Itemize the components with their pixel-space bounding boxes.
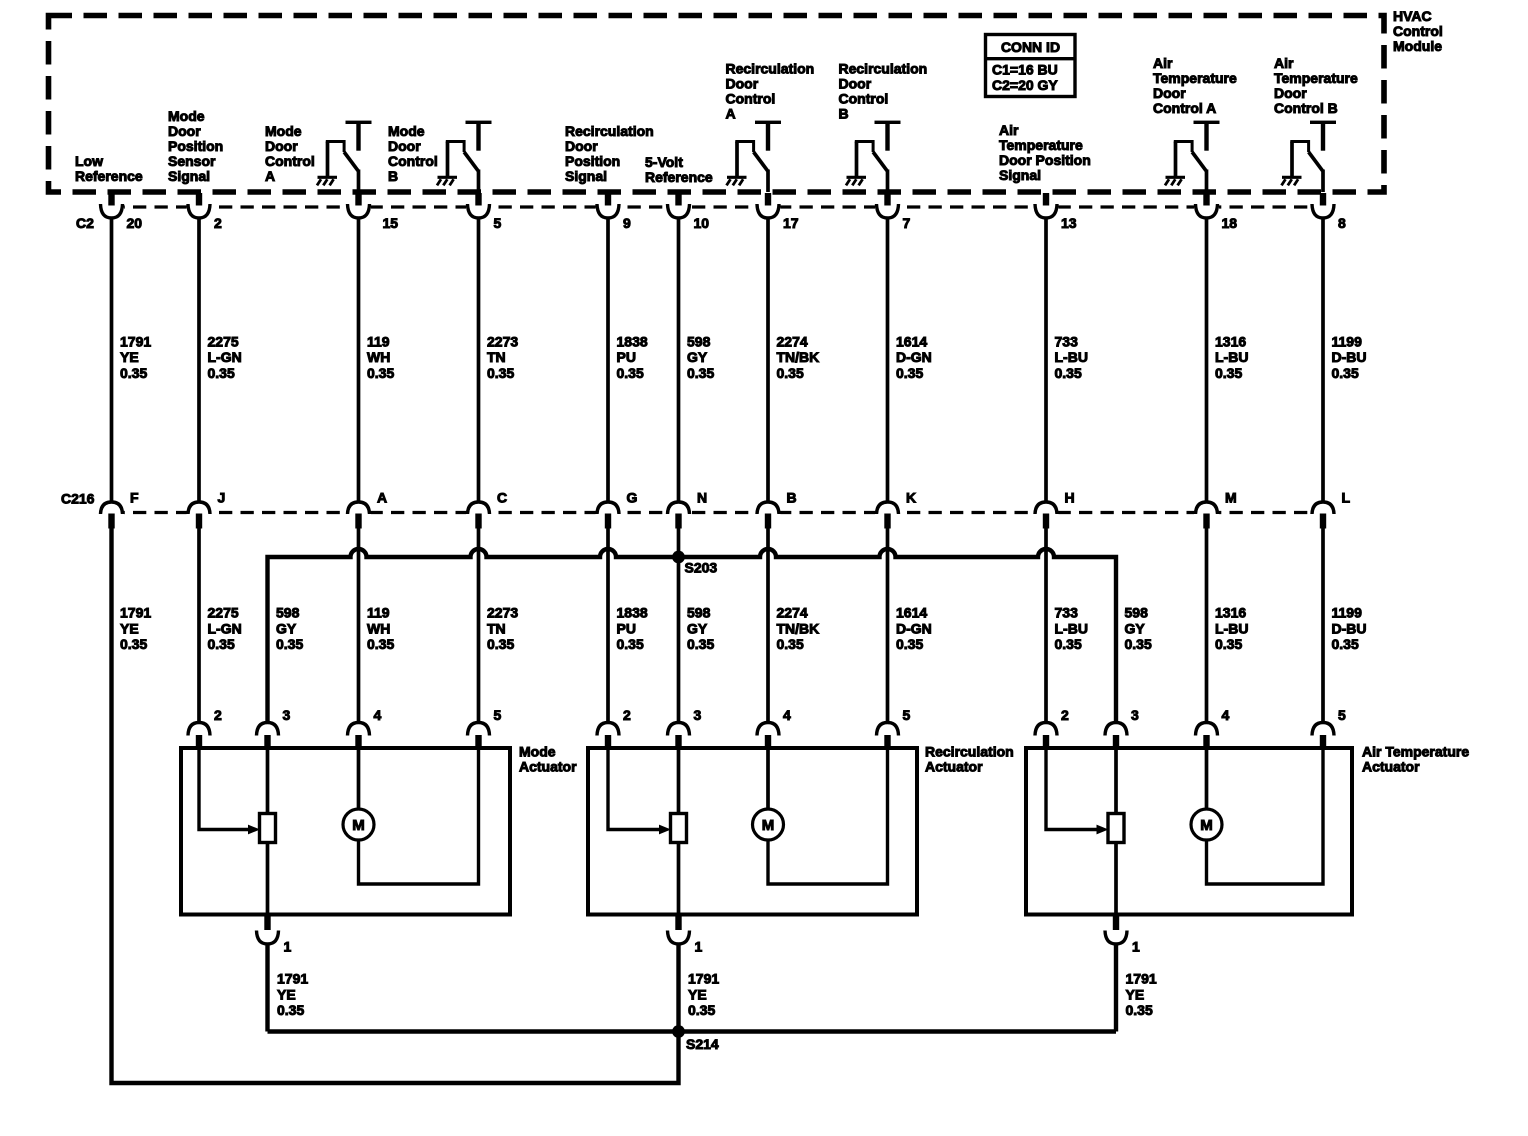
Air Temperature Actuator motor return wire (pin 5) xyxy=(1207,748,1324,884)
svg-text:0.35: 0.35 xyxy=(1215,636,1242,652)
svg-text:Actuator: Actuator xyxy=(925,759,983,775)
svg-text:1791: 1791 xyxy=(688,971,719,987)
Air Temperature Actuator pin 5 terminal xyxy=(1312,723,1334,749)
supply rail T-bar xyxy=(466,121,492,151)
svg-text:0.35: 0.35 xyxy=(367,636,394,652)
svg-text:0.35: 0.35 xyxy=(1126,1002,1153,1018)
svg-text:Temperature: Temperature xyxy=(1274,70,1358,86)
svg-text:GY: GY xyxy=(1125,620,1146,636)
svg-text:M: M xyxy=(1200,817,1213,834)
switch element xyxy=(1174,140,1207,192)
HVAC Control Module name label xyxy=(1393,8,1443,54)
svg-text:Control: Control xyxy=(265,153,315,169)
wire label 1316 L-BU 0.35 (lower) xyxy=(1215,605,1248,652)
svg-text:0.35: 0.35 xyxy=(1332,365,1359,381)
svg-text:2275: 2275 xyxy=(208,333,239,349)
Air Temperature Actuator pin 4 number xyxy=(1222,707,1230,723)
svg-text:Door: Door xyxy=(1274,85,1307,101)
svg-text:PU: PU xyxy=(617,349,636,365)
svg-text:2274: 2274 xyxy=(777,333,808,349)
svg-text:3: 3 xyxy=(1131,707,1139,723)
svg-text:1: 1 xyxy=(695,939,703,955)
Air Temperature Actuator wiper feed (pin 2) xyxy=(1046,748,1109,834)
svg-text:733: 733 xyxy=(1055,605,1079,621)
wire 1791 YE return run S214 to C216 pin F xyxy=(112,528,679,1083)
svg-text:C: C xyxy=(497,490,507,506)
svg-text:10: 10 xyxy=(694,215,710,231)
svg-text:0.35: 0.35 xyxy=(617,365,644,381)
C216 pin N terminal xyxy=(666,502,691,529)
svg-text:Door: Door xyxy=(265,138,298,154)
C2 pin 8 number xyxy=(1338,215,1346,231)
svg-text:S214: S214 xyxy=(686,1036,719,1052)
svg-text:733: 733 xyxy=(1055,333,1079,349)
svg-text:4: 4 xyxy=(783,707,791,723)
Air Temperature Actuator position sensor potentiometer xyxy=(1108,814,1124,843)
wire label 598 GY 0.35 (upper) xyxy=(687,333,714,380)
svg-text:L-BU: L-BU xyxy=(1055,620,1088,636)
C2 pin 20 number xyxy=(127,215,143,231)
svg-text:1316: 1316 xyxy=(1215,605,1246,621)
switch element xyxy=(1290,140,1323,192)
Recirculation Actuator box xyxy=(588,748,917,915)
C2 pin 18 number xyxy=(1222,215,1238,231)
Recirculation Actuator label xyxy=(925,744,1014,775)
supply rail T-bar xyxy=(1194,121,1220,151)
wire 598 GY from C216 pin N to actuator xyxy=(677,528,681,724)
svg-text:Door: Door xyxy=(726,76,759,92)
Mode Actuator pin 5 terminal xyxy=(468,723,490,749)
C2 pin 7 terminal xyxy=(875,193,900,219)
svg-text:Door Position: Door Position xyxy=(999,152,1091,168)
svg-text:3: 3 xyxy=(694,707,702,723)
svg-text:YE: YE xyxy=(120,620,139,636)
svg-text:Mode: Mode xyxy=(168,108,205,124)
Recirculation Actuator pin 5 number xyxy=(903,707,911,723)
svg-text:Recirculation: Recirculation xyxy=(839,61,928,77)
svg-text:1316: 1316 xyxy=(1215,333,1246,349)
svg-text:Air: Air xyxy=(1153,55,1173,71)
svg-text:Reference: Reference xyxy=(645,169,713,185)
wire 1614 D-GN from C216 pin K to actuator xyxy=(886,528,890,724)
C2 pin 9 terminal xyxy=(596,193,621,219)
wire label 2274 TN/BK 0.35 (lower) xyxy=(777,605,820,652)
Air Temperature Door Position Signal label xyxy=(999,122,1091,183)
C2 pin 7 number xyxy=(903,215,911,231)
svg-text:TN/BK: TN/BK xyxy=(777,620,820,636)
Mode Actuator pin 4 number xyxy=(374,707,382,723)
svg-text:5: 5 xyxy=(494,215,502,231)
Mode Actuator box xyxy=(181,748,510,915)
svg-text:0.35: 0.35 xyxy=(487,636,514,652)
svg-text:TN: TN xyxy=(487,349,506,365)
svg-text:M: M xyxy=(762,817,775,834)
svg-text:Mode: Mode xyxy=(265,123,302,139)
C216 pin C terminal xyxy=(466,502,491,529)
svg-text:Door: Door xyxy=(1153,85,1186,101)
svg-text:Air: Air xyxy=(1274,55,1294,71)
wire 2274 TN/BK from C216 pin B to actuator xyxy=(766,528,770,724)
wire label 1791 YE 0.35 (Air Temperature Actuator return) xyxy=(1126,971,1157,1018)
wire label 119 WH 0.35 (lower) xyxy=(367,605,394,652)
wire label 1614 D-GN 0.35 (upper) xyxy=(896,333,932,380)
Air Temperature Actuator pin 5 number xyxy=(1338,707,1346,723)
svg-text:Signal: Signal xyxy=(999,167,1041,183)
svg-text:15: 15 xyxy=(383,215,399,231)
svg-text:0.35: 0.35 xyxy=(777,365,804,381)
svg-text:A: A xyxy=(377,490,387,506)
svg-text:1: 1 xyxy=(284,939,292,955)
ground xyxy=(1165,177,1185,185)
Air Temperature Actuator pin 1 number xyxy=(1132,939,1140,955)
svg-text:0.35: 0.35 xyxy=(276,636,303,652)
wire 2274 TN/BK from C2 pin 17 to C216 pin B xyxy=(766,217,770,504)
svg-text:L-GN: L-GN xyxy=(208,620,242,636)
svg-text:GY: GY xyxy=(687,349,708,365)
svg-text:L: L xyxy=(1342,490,1351,506)
connector C2 dotted line xyxy=(112,205,1324,208)
svg-text:0.35: 0.35 xyxy=(1332,636,1359,652)
svg-text:TN/BK: TN/BK xyxy=(777,349,820,365)
wire label 1316 L-BU 0.35 (upper) xyxy=(1215,333,1248,380)
Mode Actuator pin 1 number xyxy=(284,939,292,955)
svg-text:Recirculation: Recirculation xyxy=(565,123,654,139)
Air Temperature Door Control B label xyxy=(1274,55,1358,116)
Recirculation Actuator pin 3 terminal xyxy=(668,723,690,749)
svg-text:1614: 1614 xyxy=(896,605,927,621)
svg-text:B: B xyxy=(839,106,849,122)
wire label 598 GY 0.35 (lower) xyxy=(1125,605,1152,652)
wire 1614 D-GN from C2 pin 7 to C216 pin K xyxy=(886,217,890,504)
svg-text:TN: TN xyxy=(487,620,506,636)
Air Temperature Actuator pin 4 terminal xyxy=(1196,723,1218,749)
svg-text:119: 119 xyxy=(367,333,390,349)
svg-text:WH: WH xyxy=(367,349,390,365)
svg-text:Door: Door xyxy=(565,138,598,154)
Mode Actuator pin 4 terminal xyxy=(348,723,370,749)
wire label 2273 TN 0.35 (upper) xyxy=(487,333,518,380)
Mode Actuator pin 3 number xyxy=(283,707,291,723)
svg-text:Signal: Signal xyxy=(565,168,607,184)
ground xyxy=(846,177,866,185)
C216 pin J terminal xyxy=(187,502,212,529)
C216 pin H terminal xyxy=(1034,502,1059,529)
Air Temperature Door Control A output driver xyxy=(1165,121,1220,192)
C216 pin C letter xyxy=(497,490,507,506)
Air Temperature Actuator pin 1 terminal xyxy=(1105,915,1127,945)
Air Temperature Actuator pin 3 number xyxy=(1131,707,1139,723)
wire 1316 L-BU from C216 pin M to actuator xyxy=(1205,528,1209,724)
wire label 598 GY 0.35 (lower) xyxy=(276,605,303,652)
svg-text:0.35: 0.35 xyxy=(1215,365,1242,381)
C216 pin J letter xyxy=(218,490,226,506)
svg-text:GY: GY xyxy=(276,620,297,636)
wire 2275 L-GN from C2 pin 2 to C216 pin J xyxy=(197,217,201,504)
svg-text:YE: YE xyxy=(1126,986,1145,1002)
svg-text:B: B xyxy=(388,168,398,184)
wire 1791 YE from Air Temperature Actuator pin 1 to S214 xyxy=(1114,943,1118,1032)
wire 1791 YE low reference tie bus xyxy=(268,1029,1117,1033)
Mode Actuator motor M xyxy=(343,748,374,840)
svg-text:C2: C2 xyxy=(76,215,94,231)
wire label 2275 L-GN 0.35 (lower) xyxy=(208,605,242,652)
C216 pin M terminal xyxy=(1194,502,1219,529)
Recirculation Actuator wiper feed (pin 2) xyxy=(608,748,671,834)
svg-text:D-GN: D-GN xyxy=(896,349,932,365)
C216 connector label xyxy=(61,491,95,507)
CONN ID values C1=16 BU / C2=20 GY xyxy=(992,61,1058,93)
svg-text:M: M xyxy=(1225,490,1237,506)
svg-text:2275: 2275 xyxy=(208,605,239,621)
wire 119 WH from C216 pin A to actuator xyxy=(357,528,361,724)
C2 pin 17 terminal xyxy=(756,193,781,219)
svg-text:0.35: 0.35 xyxy=(367,365,394,381)
svg-text:L-GN: L-GN xyxy=(208,349,242,365)
svg-text:Control B: Control B xyxy=(1274,100,1338,116)
svg-text:Signal: Signal xyxy=(168,168,210,184)
svg-text:0.35: 0.35 xyxy=(120,636,147,652)
svg-text:598: 598 xyxy=(276,605,300,621)
svg-text:1791: 1791 xyxy=(277,971,308,987)
svg-text:0.35: 0.35 xyxy=(208,636,235,652)
svg-text:M: M xyxy=(352,817,365,834)
C216 pin H letter xyxy=(1065,490,1075,506)
svg-text:Air: Air xyxy=(999,122,1019,138)
svg-text:HVAC: HVAC xyxy=(1393,8,1432,24)
wire label 1838 PU 0.35 (upper) xyxy=(617,333,648,380)
Air Temperature Actuator box xyxy=(1026,748,1352,915)
Recirculation Door Control B label xyxy=(839,61,928,122)
Recirculation Actuator pin 2 number xyxy=(623,707,631,723)
supply rail T-bar xyxy=(1310,121,1336,151)
Recirculation Actuator pin 3 number xyxy=(694,707,702,723)
Mode Actuator pin 5 number xyxy=(494,707,502,723)
Air Temperature Door Control B output driver xyxy=(1282,121,1337,192)
wire 2275 L-GN from C216 pin J to actuator xyxy=(197,528,201,724)
wire label 1791 YE 0.35 (upper) xyxy=(120,333,151,380)
svg-text:13: 13 xyxy=(1061,215,1077,231)
svg-text:4: 4 xyxy=(374,707,382,723)
svg-text:2: 2 xyxy=(214,707,222,723)
ground xyxy=(317,177,337,185)
svg-text:0.35: 0.35 xyxy=(277,1002,304,1018)
Recirculation Actuator position sensor potentiometer xyxy=(671,814,687,843)
Recirculation Actuator pin 4 number xyxy=(783,707,791,723)
svg-text:5: 5 xyxy=(903,707,911,723)
svg-text:Control A: Control A xyxy=(1153,100,1216,116)
svg-text:2274: 2274 xyxy=(777,605,808,621)
wire label 1838 PU 0.35 (lower) xyxy=(617,605,648,652)
wire label 1199 D-BU 0.35 (upper) xyxy=(1332,333,1367,380)
C216 pin K terminal xyxy=(875,502,900,529)
svg-text:WH: WH xyxy=(367,620,390,636)
svg-text:C2=20 GY: C2=20 GY xyxy=(992,77,1058,93)
Mode Actuator position sensor potentiometer xyxy=(260,814,276,843)
wire 1838 PU from C2 pin 9 to C216 pin G xyxy=(606,217,610,504)
svg-text:0.35: 0.35 xyxy=(896,636,923,652)
C216 pin G terminal xyxy=(596,502,621,529)
Mode Actuator position sensor wire (pin 3) xyxy=(266,748,270,915)
svg-text:Control: Control xyxy=(388,153,438,169)
C2 pin 15 terminal xyxy=(346,193,371,219)
wire 1838 PU from C216 pin G to actuator xyxy=(606,528,610,724)
Recirculation Actuator position sensor wire (pin 3) xyxy=(677,748,681,915)
CONN ID table xyxy=(986,35,1076,97)
svg-text:C1=16 BU: C1=16 BU xyxy=(992,61,1058,77)
wire 598 GY 5-volt reference distribution bus xyxy=(268,549,1117,724)
svg-text:1791: 1791 xyxy=(120,605,151,621)
svg-text:1199: 1199 xyxy=(1332,605,1363,621)
wire label 2274 TN/BK 0.35 (upper) xyxy=(777,333,820,380)
C216 pin F terminal xyxy=(99,502,124,529)
wire 1199 D-BU from C216 pin L to actuator xyxy=(1321,528,1325,724)
svg-text:598: 598 xyxy=(687,605,711,621)
C216 pin G letter xyxy=(627,490,638,506)
connector C216 dashed line xyxy=(112,511,1324,514)
svg-text:0.35: 0.35 xyxy=(208,365,235,381)
svg-text:F: F xyxy=(130,490,139,506)
C2 pin 2 number xyxy=(214,215,222,231)
wire label 1614 D-GN 0.35 (lower) xyxy=(896,605,932,652)
svg-text:J: J xyxy=(218,490,226,506)
wire label 1791 YE 0.35 (Recirculation Actuator return) xyxy=(688,971,719,1018)
svg-text:Control: Control xyxy=(839,91,889,107)
Mode Door Position Sensor Signal label xyxy=(168,108,223,184)
svg-text:4: 4 xyxy=(1222,707,1230,723)
C216 pin K letter xyxy=(906,490,916,506)
svg-text:L-BU: L-BU xyxy=(1215,349,1248,365)
Recirculation Actuator motor return wire (pin 5) xyxy=(768,748,888,884)
svg-text:2: 2 xyxy=(1061,707,1069,723)
svg-text:1199: 1199 xyxy=(1332,333,1363,349)
svg-text:5: 5 xyxy=(494,707,502,723)
Mode Actuator pin 2 terminal xyxy=(188,723,210,749)
Recirculation Actuator pin 4 terminal xyxy=(757,723,779,749)
splice S203 xyxy=(672,551,685,564)
svg-text:L-BU: L-BU xyxy=(1215,620,1248,636)
supply rail T-bar xyxy=(346,121,372,151)
wire 733 L-BU from C2 pin 13 to C216 pin H xyxy=(1044,217,1048,504)
wire label 733 L-BU 0.35 (lower) xyxy=(1055,605,1088,652)
supply rail T-bar xyxy=(755,121,781,151)
svg-text:Position: Position xyxy=(168,138,223,154)
C216 pin A letter xyxy=(377,490,387,506)
svg-text:Control: Control xyxy=(726,91,776,107)
Air Temperature Actuator position sensor wire (pin 3) xyxy=(1114,748,1118,915)
C2 pin 20 terminal xyxy=(99,193,124,219)
C216 pin A terminal xyxy=(346,502,371,529)
Mode Door Control B output driver xyxy=(437,121,492,192)
svg-text:G: G xyxy=(627,490,638,506)
C216 pin B letter xyxy=(787,490,797,506)
wire 2273 TN from C216 pin C to actuator xyxy=(477,528,481,724)
Low Reference label xyxy=(75,153,143,184)
C216 pin L terminal xyxy=(1311,502,1336,529)
wire 1316 L-BU from C2 pin 18 to C216 pin M xyxy=(1205,217,1209,504)
Air Temperature Actuator label xyxy=(1362,744,1469,775)
svg-text:CONN ID: CONN ID xyxy=(1001,39,1060,55)
Mode Actuator pin 1 terminal xyxy=(257,915,279,945)
C216 pin F letter xyxy=(130,490,139,506)
Recirculation Door Control A output driver xyxy=(727,121,782,192)
Recirculation Actuator pin 5 terminal xyxy=(877,723,899,749)
svg-text:Temperature: Temperature xyxy=(1153,70,1237,86)
svg-text:2: 2 xyxy=(214,215,222,231)
wire 119 WH from C2 pin 15 to C216 pin A xyxy=(357,217,361,504)
wire label 2275 L-GN 0.35 (upper) xyxy=(208,333,242,380)
wire label 733 L-BU 0.35 (upper) xyxy=(1055,333,1088,380)
svg-text:YE: YE xyxy=(120,349,139,365)
svg-text:2273: 2273 xyxy=(487,605,518,621)
switch element xyxy=(855,140,888,192)
C2 pin 13 terminal xyxy=(1034,193,1059,219)
wire 1199 D-BU from C2 pin 8 to C216 pin L xyxy=(1321,217,1325,504)
wire label 119 WH 0.35 (upper) xyxy=(367,333,394,380)
svg-text:8: 8 xyxy=(1338,215,1346,231)
svg-text:A: A xyxy=(726,106,736,122)
wire label 2273 TN 0.35 (lower) xyxy=(487,605,518,652)
svg-text:0.35: 0.35 xyxy=(896,365,923,381)
svg-text:N: N xyxy=(697,490,707,506)
svg-text:Actuator: Actuator xyxy=(519,759,577,775)
Recirculation Actuator pin 1 terminal xyxy=(668,915,690,945)
svg-text:0.35: 0.35 xyxy=(687,636,714,652)
svg-text:18: 18 xyxy=(1222,215,1238,231)
svg-text:2: 2 xyxy=(623,707,631,723)
splice S214 xyxy=(672,1025,685,1038)
S214 label xyxy=(686,1036,719,1052)
svg-text:Door: Door xyxy=(839,76,872,92)
Mode Door Control A output driver xyxy=(317,121,372,192)
svg-text:0.35: 0.35 xyxy=(1055,636,1082,652)
Air Temperature Actuator pin 2 number xyxy=(1061,707,1069,723)
svg-text:YE: YE xyxy=(277,986,296,1002)
ground xyxy=(437,177,457,185)
svg-text:Recirculation: Recirculation xyxy=(925,744,1014,760)
svg-text:D-BU: D-BU xyxy=(1332,349,1367,365)
S203 label xyxy=(685,560,718,576)
switch element xyxy=(446,140,479,192)
C2 pin 18 terminal xyxy=(1194,193,1219,219)
svg-text:Module: Module xyxy=(1393,38,1442,54)
5-Volt Reference label xyxy=(645,154,713,185)
wire 598 GY from C2 pin 10 to C216 pin N xyxy=(677,217,681,504)
svg-text:Air Temperature: Air Temperature xyxy=(1362,744,1469,760)
Air Temperature Actuator motor M xyxy=(1191,748,1222,840)
svg-text:1: 1 xyxy=(1132,939,1140,955)
svg-text:0.35: 0.35 xyxy=(687,365,714,381)
svg-text:0.35: 0.35 xyxy=(120,365,147,381)
svg-text:Control: Control xyxy=(1393,23,1443,39)
svg-text:17: 17 xyxy=(783,215,799,231)
svg-text:B: B xyxy=(787,490,797,506)
C2 pin 9 number xyxy=(623,215,631,231)
C2 pin 10 terminal xyxy=(666,193,691,219)
svg-text:Mode: Mode xyxy=(388,123,425,139)
svg-text:Door: Door xyxy=(388,138,421,154)
Mode Actuator label xyxy=(519,744,577,775)
C2 pin 10 number xyxy=(694,215,710,231)
svg-text:Actuator: Actuator xyxy=(1362,759,1420,775)
C2 pin 17 number xyxy=(783,215,799,231)
svg-text:1791: 1791 xyxy=(120,333,151,349)
svg-text:PU: PU xyxy=(617,620,636,636)
Mode Door Control A label xyxy=(265,123,315,184)
Recirculation Door Control A label xyxy=(726,61,815,122)
C2 pin 15 number xyxy=(383,215,399,231)
svg-text:5: 5 xyxy=(1338,707,1346,723)
svg-text:5-Volt: 5-Volt xyxy=(645,154,683,170)
